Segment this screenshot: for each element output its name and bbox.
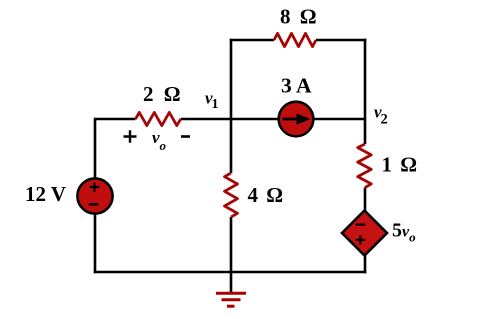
resistor 8ohm (horizontal zigzag) xyxy=(274,33,316,46)
wire: right vertical from top to v2 xyxy=(364,39,367,119)
resistor 4ohm (vertical zigzag) xyxy=(225,173,238,217)
label + (vo polarity) xyxy=(124,130,137,143)
wire: middle vertical (4-ohm branch) xyxy=(230,119,233,272)
dependent source 5vo (diamond with -/+) xyxy=(342,211,387,256)
svg-text:2 Ω: 2 Ω xyxy=(143,82,183,106)
current source 3A (circle with right arrow) xyxy=(279,102,314,137)
wire: top horizontal (8-ohm branch) xyxy=(230,39,367,42)
svg-text:12 V: 12 V xyxy=(25,182,66,206)
resistor 2ohm (horizontal zigzag) xyxy=(136,112,181,125)
wire: right vertical (1-ohm / dependent source branch) xyxy=(364,119,367,273)
wire: bottom horizontal xyxy=(94,271,367,274)
svg-text:1 Ω: 1 Ω xyxy=(382,153,419,177)
ground xyxy=(216,272,246,306)
wire: middle vertical leg up to top branch xyxy=(230,39,233,119)
label - (vo polarity) xyxy=(181,135,190,138)
wire: main horizontal (node row) xyxy=(95,118,365,121)
svg-text:4 Ω: 4 Ω xyxy=(248,183,285,207)
svg-text:8 Ω: 8 Ω xyxy=(280,5,319,29)
resistor 1ohm (vertical zigzag) xyxy=(358,144,372,188)
wire: left vertical (12V branch) xyxy=(94,118,97,274)
voltage source 12V (circle with +/-) xyxy=(77,178,112,213)
svg-text:3 A: 3 A xyxy=(281,74,312,98)
